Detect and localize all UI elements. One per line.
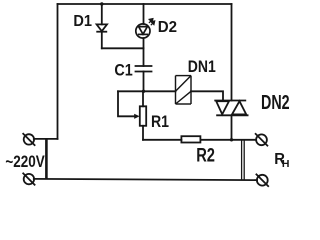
wire R2 row (143, 139, 181, 141)
potentiometer R1 (140, 106, 146, 126)
wire D2 cathode (143, 38, 145, 66)
svg-text:~220V: ~220V (5, 153, 44, 171)
wire C1 bottom (143, 72, 145, 92)
wire triac MT1 (231, 115, 233, 140)
svg-text:DN2: DN2 (261, 92, 290, 114)
svg-text:DN1: DN1 (188, 58, 216, 76)
triac DN2 (214, 101, 248, 116)
junction dot MT1 row (230, 138, 233, 141)
wire R1 top lead (142, 91, 144, 106)
svg-text:R2: R2 (196, 145, 215, 166)
capacitor C1 (135, 66, 153, 72)
wire D2 anode (143, 4, 145, 24)
mains cord (external source line) (45, 139, 48, 180)
diode D1 (96, 24, 107, 31)
diac DN1 (176, 76, 192, 104)
junction dot mid wire (142, 90, 145, 93)
wire triac MT2 (231, 4, 233, 101)
svg-text:D2: D2 (158, 19, 177, 36)
wire left vertical (57, 4, 59, 139)
resistor R2 (181, 136, 200, 142)
terminal ~220V bottom (23, 173, 36, 186)
R1 wiper arrowhead (134, 114, 139, 119)
wire R1 wiper loop (118, 91, 136, 116)
wire mid horizontal (118, 90, 176, 92)
terminal ~220V top (23, 133, 36, 146)
wire bottom rail (34, 179, 257, 180)
LED D2 light arrows (149, 19, 155, 26)
svg-text:C1: C1 (114, 61, 132, 79)
wire D1 anode (101, 4, 103, 24)
terminal Rh top (255, 133, 268, 146)
LED D2 (136, 24, 150, 38)
junction dot D1 top (100, 2, 103, 5)
wire D1 cathode (101, 32, 103, 49)
wire diac to gate (191, 91, 223, 100)
load cord (double line) (242, 140, 245, 180)
svg-text:D1: D1 (73, 13, 92, 30)
wire top-left terminal lead (34, 138, 58, 140)
svg-text:H: H (282, 158, 290, 170)
svg-text:R1: R1 (151, 112, 169, 131)
terminal Rh bottom (256, 174, 269, 187)
wire top rail (58, 3, 232, 5)
wire R1 bottom lead (142, 126, 144, 140)
wire D1-D2 join (102, 47, 144, 49)
